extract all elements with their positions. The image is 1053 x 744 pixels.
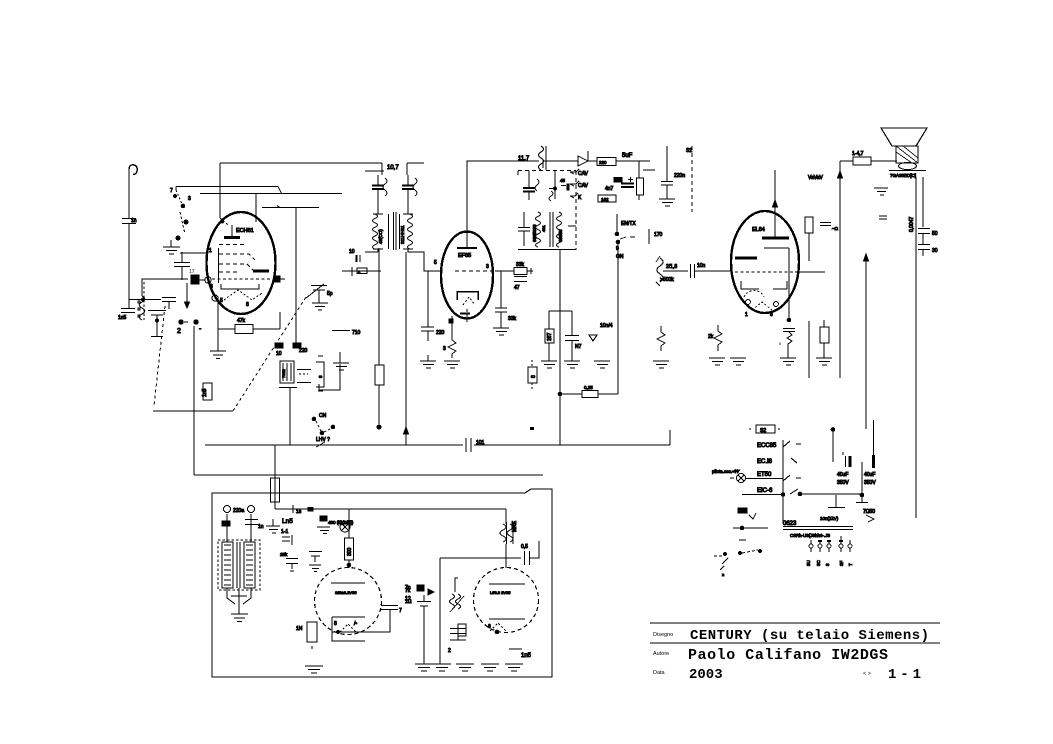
resistor R4 boxed (342, 270, 381, 272)
wire anode stem V1 (219, 163, 221, 218)
ground gnd17 (231, 606, 248, 622)
capacitor C8 block (275, 343, 283, 348)
anode stem V1 (220, 218, 228, 225)
svg-text:5p: 5p (327, 291, 333, 297)
lamp LP1 (340, 522, 350, 532)
capacitor C14 (528, 171, 530, 188)
svg-text:8: 8 (318, 375, 323, 378)
grid g1 V2 (455, 270, 493, 272)
svg-text:3: 3 (443, 346, 446, 352)
node grid-cap terminal (205, 277, 211, 283)
node det out (638, 161, 640, 178)
svg-text:-: - (199, 326, 202, 333)
wire cap to V3 grid (695, 270, 731, 272)
svg-text:CAV: CAV (578, 183, 589, 189)
node switch terminal 2 (179, 320, 183, 324)
ground gnd8 (444, 361, 460, 368)
wire speaker return 2 (922, 177, 924, 227)
cathode stem V2 (466, 309, 468, 322)
svg-text:n: n (722, 572, 724, 577)
trimmer C15 (549, 171, 555, 200)
wire HT long vertical 2 (865, 256, 867, 429)
potentiometer P1 volume (657, 258, 663, 282)
svg-text:5: 5 (434, 260, 437, 266)
wire row4 (742, 489, 798, 495)
tube V3 EL84 envelope (731, 211, 799, 313)
switch jog on bus (316, 442, 325, 447)
component block 1-1 (282, 535, 292, 545)
switch contact row1 (783, 441, 801, 447)
inductor L5 primary (536, 212, 541, 247)
wire diode out (616, 160, 650, 162)
svg-text:3: 3 (210, 284, 213, 290)
component block on mains wire (308, 507, 314, 512)
svg-text:10,7: 10,7 (387, 165, 399, 171)
grid g2 bar V3 (735, 257, 757, 260)
svg-text:>500k: >500k (660, 277, 674, 283)
inductor L3 primary (373, 214, 383, 249)
wire vert from above (831, 428, 835, 432)
wire left entry (180, 252, 207, 254)
node end dot (377, 425, 381, 429)
anode plate V2 (457, 247, 477, 249)
svg-text:Disegno: Disegno (653, 632, 673, 638)
tube V5 output envelope (474, 568, 539, 633)
resistor R20 boxed (805, 217, 813, 233)
ground gnd16 (874, 188, 888, 195)
inductor L1 antenna coil (138, 282, 145, 320)
svg-text:CENTURY (su telaio Siemens): CENTURY (su telaio Siemens) (690, 628, 929, 644)
core T1 (394, 212, 396, 250)
svg-text:5: 5 (779, 341, 782, 346)
capacitor C19 (514, 277, 527, 282)
wire rail H1 top (220, 162, 382, 164)
capacitor C29 (286, 559, 298, 572)
wire osc grid drop (295, 208, 297, 343)
pin circles V3 (746, 300, 751, 305)
SECTION: title block (650, 623, 940, 683)
wire heater bus horizontal (194, 474, 543, 476)
ground gnd4 (312, 290, 328, 310)
resistor R22 zigzag (657, 326, 665, 351)
wire pot to cap (663, 270, 688, 272)
svg-text:43(CO): 43(CO) (378, 229, 383, 244)
svg-text:47k: 47k (237, 318, 246, 324)
resistor R21 boxed (375, 365, 384, 385)
svg-text:0,0047: 0,0047 (909, 216, 915, 232)
capacitor C3 grid cap (191, 275, 199, 284)
svg-text:2: 2 (177, 328, 181, 335)
svg-text:220a: 220a (233, 508, 244, 514)
heater V2 (463, 297, 475, 305)
dashed section line S1 (691, 146, 693, 212)
svg-text:1?: 1? (405, 596, 411, 602)
svg-text:6: 6 (488, 624, 491, 630)
svg-text:5: 5 (221, 219, 224, 225)
wire T1 primary lead down (378, 248, 380, 365)
trimmer C10 (306, 284, 327, 298)
svg-text:8: 8 (246, 302, 249, 308)
switch SW3 (285, 505, 293, 513)
svg-text:8: 8 (334, 621, 337, 627)
wire anode rail V2 (467, 161, 539, 248)
svg-text:Ln5: Ln5 (282, 518, 293, 525)
wire to diode (543, 161, 578, 168)
bus double line (783, 527, 853, 530)
ground gnd7 (493, 328, 509, 335)
svg-text:3C: 3C (816, 559, 821, 566)
resistor R13 (648, 229, 650, 244)
svg-text:EIC-6: EIC-6 (757, 488, 773, 494)
core T2 (550, 212, 553, 247)
switch contact row3 (783, 475, 801, 481)
capacitor C38 (828, 495, 845, 508)
svg-text:ECH81: ECH81 (236, 228, 254, 234)
transformer TR2 output (500, 524, 506, 542)
wire fuse drop (274, 445, 276, 478)
capacitor C11 (355, 255, 357, 262)
svg-text:10n: 10n (697, 263, 706, 269)
wire cathode drop (439, 558, 441, 664)
node j2 (864, 254, 869, 261)
resistor R8 boxed (495, 270, 514, 272)
svg-text:710: 710 (352, 330, 361, 336)
svg-text:11,7: 11,7 (518, 156, 530, 162)
svg-text:8: 8 (770, 312, 773, 318)
switch SW4 (723, 552, 726, 555)
svg-text:Data: Data (653, 670, 666, 676)
T bar (856, 502, 868, 504)
heater V3 (744, 291, 764, 297)
svg-text:S2: S2 (760, 428, 766, 434)
svg-text:40uF: 40uF (864, 472, 875, 478)
wire V1 cathode lead (217, 301, 219, 329)
svg-text:350V: 350V (864, 480, 876, 486)
svg-text:2/1,8: 2/1,8 (666, 264, 677, 270)
tube V2 EF85 envelope (441, 232, 493, 319)
wire grid stem V1 (255, 194, 257, 223)
wire inner rail stubs (365, 170, 384, 172)
component block small (738, 508, 747, 513)
capacitor C42 (518, 212, 530, 246)
svg-text:33k: 33k (516, 262, 525, 268)
resistor R14 boxed (820, 327, 829, 343)
svg-text:17: 17 (189, 269, 195, 275)
ground gnd23 (456, 664, 474, 671)
wire mains top inside (275, 508, 506, 510)
resistor R10 boxed (548, 311, 550, 329)
resistor R11 boxed (528, 367, 537, 383)
resistor R2 47k (218, 312, 280, 329)
capacitor C24 (918, 229, 930, 245)
capacitor C18 (661, 146, 673, 199)
svg-text:33k: 33k (508, 316, 517, 322)
wire grid out right (795, 271, 825, 273)
symbol minus (879, 216, 887, 219)
anode bar V5 (489, 583, 525, 585)
svg-text:T: T (848, 563, 853, 566)
svg-text:1-4,7: 1-4,7 (852, 151, 864, 157)
ground gnd2 (163, 240, 180, 254)
wire rail H4 (262, 207, 319, 209)
svg-text:3U: 3U (806, 560, 811, 566)
wire rail right of can (407, 163, 424, 175)
svg-text:162: 162 (601, 197, 609, 202)
capacitor C41 (561, 185, 566, 187)
svg-text:10n(1kV): 10n(1kV) (820, 516, 839, 521)
wire long vertical to heater bus (193, 326, 195, 475)
svg-text:1-1: 1-1 (281, 529, 288, 535)
svg-text:pilota.ccc.≈²⁄³⁄: pilota.ccc.≈²⁄³⁄ (712, 469, 740, 474)
wire stub (733, 527, 768, 529)
inductor L4 secondary (403, 214, 413, 249)
svg-text:S1: S1 (686, 148, 692, 154)
inductor L8 feedback (450, 594, 455, 609)
label S2 boxed (756, 425, 775, 433)
band switch S1a contacts (170, 188, 191, 240)
svg-text:287: 287 (547, 332, 553, 341)
ground gnd20 (305, 666, 323, 673)
svg-text:220: 220 (436, 330, 445, 336)
tube V1 ECH81 envelope (207, 212, 276, 314)
dashed gang link right diagonal (233, 297, 306, 411)
wire T2 secondary down long (559, 250, 561, 445)
wire lamp to bus (746, 478, 783, 480)
power supply box outline (212, 489, 552, 677)
wire HT to Tbar (861, 462, 863, 502)
resistor R7 boxed (598, 195, 616, 202)
diode D1 (578, 151, 588, 166)
svg-text:LHV ?: LHV ? (316, 437, 330, 443)
capacitor C13 (407, 175, 409, 214)
cathode bracket V2 (457, 292, 478, 301)
svg-text:10: 10 (276, 351, 282, 357)
ground gnd27 (653, 361, 669, 368)
mains plug terminals (224, 506, 231, 513)
label 1n5 (509, 648, 522, 650)
svg-text:7352: 7352 (281, 368, 286, 378)
capacitor C20 (495, 308, 507, 328)
svg-text:45: 45 (560, 178, 566, 183)
inductor L6 secondary (557, 212, 562, 247)
wire plug to transformer (227, 514, 251, 542)
svg-text:40uF: 40uF (837, 472, 848, 478)
svg-text:1#2±3.2V35: 1#2±3.2V35 (335, 590, 357, 595)
capacitor C7 small block (274, 276, 280, 282)
wire T1 secondary to bus (405, 252, 407, 445)
wire coil top to grid line (142, 279, 188, 296)
svg-text:10: 10 (349, 249, 355, 255)
wire T1 secondary to V2 grid (408, 249, 441, 271)
switch SW2 mains CN (312, 417, 316, 421)
wire jog H2a-H2b (278, 187, 282, 195)
wire AGC arrow (185, 283, 190, 308)
wire rail H2b (200, 193, 342, 195)
capacitor C31 (381, 606, 398, 610)
fuse F1 (271, 478, 280, 502)
cathode V5 (489, 618, 525, 620)
svg-text:CN: CN (319, 413, 327, 419)
symbol phase triangle (589, 335, 597, 341)
svg-text:3: 3 (486, 264, 489, 270)
capacitor C21 (565, 311, 579, 361)
capacitor C37 electrolytic 40uF (873, 420, 875, 455)
svg-text:30: 30 (932, 248, 938, 254)
grid cap dashed V1 (212, 278, 272, 280)
svg-text:47: 47 (514, 285, 520, 291)
capacitor C4 padding (162, 298, 176, 310)
svg-text:5uF: 5uF (622, 153, 633, 159)
ground gnd3 (210, 329, 226, 359)
svg-text:7Ω50: 7Ω50 (863, 509, 875, 515)
svg-text:1: 1 (209, 248, 212, 254)
svg-text:220n: 220n (674, 173, 685, 179)
switch contact row2 (791, 458, 797, 463)
ground gnd9 (541, 343, 557, 368)
plate bar hexode V1 (253, 270, 269, 273)
svg-text:K: K (578, 195, 582, 201)
capacitor C39 (820, 223, 831, 226)
capacitor C28 (245, 520, 258, 525)
svg-text:1N: 1N (296, 626, 303, 632)
wire HT vertical (839, 161, 841, 378)
inductor L2 oscillator coil (280, 361, 294, 383)
variable capacitor C5 tuning gang a (148, 311, 166, 337)
wire osc coil bottom (279, 388, 297, 446)
arrow HT (838, 171, 843, 178)
svg-text:CAV: CAV (578, 171, 589, 177)
switch SW-on (616, 214, 618, 232)
capacitor C17 block (614, 178, 622, 183)
capacitor C25 (918, 245, 930, 257)
svg-text:C3Rh-U3(J8hh6-.J3: C3Rh-U3(J8hh6-.J3 (790, 533, 831, 538)
svg-text:6365633: 6365633 (532, 224, 537, 242)
grid g3 V1 (219, 264, 254, 271)
svg-text:~Ω: ~Ω (832, 226, 839, 231)
capacitor C16 (621, 184, 634, 188)
svg-text:MRE: MRE (512, 520, 518, 532)
capacitor C36 electrolytic 40uF (845, 456, 847, 467)
svg-text:3: 3 (825, 563, 830, 566)
ground gnd13 (816, 358, 832, 365)
capacitor C23 (783, 329, 795, 359)
pin block V2 (449, 319, 453, 323)
wire AGC up to switch (617, 244, 619, 394)
svg-text:L#3.8 2V35: L#3.8 2V35 (490, 590, 511, 595)
svg-text:2k: 2k (708, 334, 714, 340)
svg-text:EN/TX: EN/TX (621, 221, 636, 227)
svg-text:1n: 1n (258, 524, 264, 530)
wire V3 pin9 (808, 321, 810, 378)
svg-text:Paolo Califano IW2DGS: Paolo Califano IW2DGS (688, 647, 888, 664)
cathode box V4 (332, 617, 365, 632)
capacitor C22 coupling (691, 264, 695, 278)
svg-text:1: 1 (745, 312, 748, 318)
svg-text:Autore: Autore (653, 651, 669, 657)
svg-text:/•: /• (354, 621, 357, 627)
connector pins (809, 536, 852, 552)
ground gnd14 (709, 358, 725, 365)
inductor L7 (539, 146, 544, 170)
ground gnd6 (659, 199, 675, 206)
svg-text:170: 170 (654, 232, 663, 238)
svg-text:431: 431 (541, 225, 546, 232)
capacitor C35 stack (450, 629, 466, 641)
svg-text:7GA35ED[C]: 7GA35ED[C] (890, 173, 916, 178)
capacitor C2 (121, 309, 135, 313)
svg-text:1n: 1n (131, 218, 137, 224)
ground gnd18 (266, 519, 280, 533)
ground gnd11 (594, 361, 610, 368)
capacitor C34 (417, 595, 431, 664)
tube V4 rectifier envelope (315, 568, 382, 635)
wire C40 lead (427, 271, 429, 327)
wire stub above gnd5 (319, 364, 340, 390)
resistor R6 boxed vertical (637, 178, 644, 195)
capacitor C9 block (293, 343, 301, 348)
transformer TR1 (218, 540, 260, 590)
resistor R9 zigzag (448, 316, 456, 358)
dashed gang link bottom (153, 410, 233, 412)
lamp block (320, 516, 327, 521)
cathode brackets V3 (741, 281, 787, 289)
capacitor C26 inline (466, 438, 471, 452)
pin circle V1 (212, 295, 218, 301)
ground gnd21 (415, 664, 433, 671)
arrow anode V3 (773, 200, 778, 207)
wire transformer bottom (227, 588, 251, 606)
IF can T2 outline (518, 170, 576, 172)
wire branch y311 (549, 310, 572, 312)
svg-text:350V: 350V (837, 480, 849, 486)
capacitor C27 block (222, 521, 230, 526)
svg-text:7: 7 (170, 188, 173, 194)
resistor R16 boxed output (840, 160, 853, 162)
svg-text:10n/4: 10n/4 (600, 323, 613, 329)
resistor R3 boxed (316, 362, 324, 387)
svg-text:3: 3 (188, 196, 191, 202)
cathode bracket V1 (221, 284, 259, 289)
svg-text:0,25: 0,25 (584, 385, 593, 390)
capacitor C30 (309, 552, 322, 563)
svg-text:N7: N7 (575, 344, 582, 350)
resistor R17 boxed (348, 509, 350, 538)
wire V2 screen drop (500, 271, 502, 308)
svg-text:25k: 25k (280, 552, 288, 557)
resistor R15 zigzag (714, 325, 722, 351)
heater V1 (224, 290, 262, 300)
svg-text:50: 50 (932, 231, 938, 237)
capacitor C1 (122, 219, 136, 309)
svg-text:101: 101 (476, 440, 485, 446)
grid dashed V3 (735, 271, 795, 273)
wire S2 bus (782, 440, 784, 524)
grid g4 V1 (219, 271, 240, 273)
ground gnd12 (780, 358, 796, 365)
speaker LS1 (881, 128, 927, 146)
svg-text:1n5: 1n5 (118, 315, 127, 321)
filament bar V4 (331, 582, 365, 584)
wire bottom bus y445 (205, 430, 670, 445)
wire rail H1 right drop (381, 163, 383, 175)
inner lead V1 (218, 248, 220, 283)
capacitor C12 (377, 175, 379, 214)
wire anode stem V3 (774, 170, 776, 238)
anode plate V3 (762, 237, 789, 240)
capacitor C32 (440, 541, 539, 565)
svg-text:2003: 2003 (689, 667, 723, 683)
svg-text:300: 300 (347, 547, 353, 556)
